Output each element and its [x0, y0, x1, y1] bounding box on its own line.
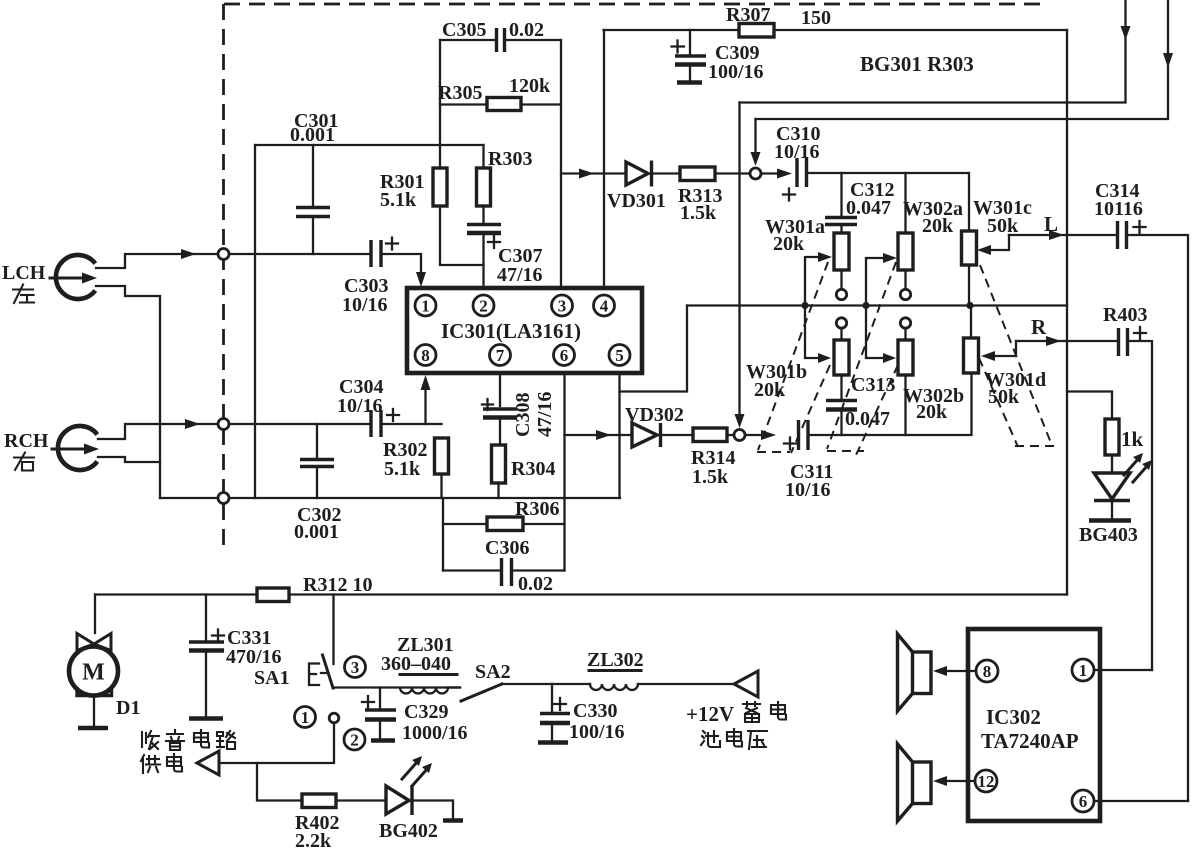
ground bar C330: [538, 740, 568, 745]
label C305 value: [442, 19, 544, 41]
LED BG402: [386, 756, 453, 818]
svg-text:VD302: VD302: [625, 404, 684, 426]
potentiometer W301d: [964, 306, 1017, 374]
label IC301: [441, 319, 581, 343]
wire C301 loop left vertical: [254, 145, 256, 498]
label R302 value: [383, 439, 427, 480]
label RCH: [4, 430, 49, 452]
node open circle on LCH line at dashed border: [218, 249, 229, 260]
pin 1: [415, 295, 436, 316]
dashed border left edge: [222, 4, 225, 547]
wire LCH upper stub to node A: [96, 254, 370, 268]
wire L output line with arrow: [1009, 234, 1117, 236]
svg-text:SA1: SA1: [254, 667, 290, 689]
svg-text:IC302: IC302: [986, 705, 1041, 729]
svg-text:47/16: 47/16: [497, 264, 543, 286]
svg-text:R304: R304: [511, 458, 555, 480]
resistor R312: [257, 588, 289, 602]
label W301c value: [973, 197, 1032, 237]
label C314 value: [1094, 180, 1143, 220]
label C330 value: [569, 700, 625, 743]
wire power rail top: [604, 29, 1068, 31]
svg-text:2: 2: [479, 297, 488, 316]
wire pot center rail: [687, 304, 1067, 306]
capacitor C301: [296, 145, 330, 254]
wire pin5 elbow to pot center rail: [620, 306, 688, 392]
resistor R306: [443, 517, 565, 531]
label BG301 R303: [860, 52, 974, 76]
arrow on LCH line: [181, 249, 196, 259]
wire rail to motor: [94, 595, 96, 634]
svg-text:12: 12: [978, 772, 995, 791]
dashed gang coupling middle pair: [827, 262, 898, 455]
svg-text:R303: R303: [488, 148, 532, 170]
label R402 value: [295, 812, 339, 848]
label ZL302: [587, 649, 644, 671]
speaker lower: [898, 744, 932, 821]
capacitor C304 electrolytic: [371, 409, 399, 437]
ground bar C329: [371, 738, 395, 743]
svg-text:1: 1: [421, 297, 430, 316]
node contact circle SA1: [329, 713, 339, 723]
label C301 value: [290, 110, 338, 146]
potentiometer W301a: [805, 233, 849, 306]
label C329 value: [402, 701, 468, 744]
capacitor C311 electrolytic: [784, 420, 808, 450]
resistor R305: [440, 98, 561, 111]
svg-text:50k: 50k: [987, 215, 1019, 237]
dashed gang coupling right pair: [979, 265, 1058, 447]
svg-text:0.047: 0.047: [846, 197, 891, 219]
LED BG403: [1094, 453, 1152, 518]
svg-text:6: 6: [1079, 792, 1088, 811]
label C311 value: [785, 461, 833, 501]
label C302 value: [294, 504, 341, 543]
pin 8: [415, 345, 436, 366]
svg-text:0.001: 0.001: [290, 124, 335, 146]
capacitor C331 electrolytic: [189, 595, 224, 717]
wire C303 to IC301 pin1 with down arrow: [382, 254, 421, 272]
label C306 value: [485, 537, 553, 595]
label W301a value: [765, 216, 825, 255]
connector RCH input jack: [52, 426, 99, 470]
label C307 value: [497, 245, 543, 286]
resistor R303: [477, 145, 491, 223]
capacitor C313: [826, 375, 857, 435]
pin 7: [490, 345, 511, 366]
svg-text:R305: R305: [438, 82, 482, 104]
resistor R313: [680, 167, 750, 181]
label SA2: [475, 661, 511, 683]
wire pin6 vertical: [563, 373, 565, 571]
junction dot W302a wiper: [862, 302, 869, 309]
diode VD301: [626, 161, 680, 187]
svg-text:5.1k: 5.1k: [384, 458, 421, 480]
pin 4: [594, 295, 615, 316]
switch SA2: [461, 684, 502, 701]
wire pin1 to R403 vertical: [1094, 669, 1152, 671]
pin 6: [554, 345, 575, 366]
capacitor C306: [443, 558, 565, 586]
svg-text:5.1k: 5.1k: [380, 189, 417, 211]
potentiometer W301b: [805, 306, 849, 376]
capacitor C303 electrolytic: [371, 238, 398, 268]
pin 2: [473, 295, 494, 316]
svg-text:1: 1: [1079, 661, 1088, 680]
terminal +12V battery triangle: [734, 671, 758, 697]
label W301d value: [985, 369, 1046, 408]
wire VD301 signal line with arrow: [561, 172, 626, 174]
svg-text:10116: 10116: [1094, 198, 1143, 220]
ground bar motor: [78, 726, 108, 731]
label C312 value: [846, 179, 894, 219]
capacitor R403 electrolytic: [1119, 327, 1147, 356]
wire ground bus rail: [160, 497, 620, 499]
wire C314 to IC302 pin6: [1127, 235, 1188, 801]
wire branch down to R402: [257, 763, 302, 801]
node open circle on RCH line at dashed border: [218, 419, 229, 430]
pin 6 of IC302: [1072, 790, 1094, 812]
svg-text:3: 3: [351, 658, 360, 677]
resistor R302: [435, 438, 449, 498]
capacitor C308 electrolytic: [482, 399, 517, 445]
svg-text:RCH: RCH: [4, 430, 49, 452]
capacitor C309 electrolytic: [672, 30, 707, 83]
svg-text:C308: C308: [512, 393, 534, 437]
wire pin7 to C308: [499, 373, 501, 406]
svg-text:1.5k: 1.5k: [680, 202, 717, 224]
svg-text:10/16: 10/16: [774, 141, 820, 163]
capacitor C329 electrolytic: [362, 688, 396, 739]
pin number 2 circled: [344, 729, 365, 750]
capacitor C305: [440, 28, 561, 52]
label L: [1044, 212, 1058, 236]
svg-text:IC301(LA3161): IC301(LA3161): [441, 319, 581, 343]
node open circle on ground rail at dashed border: [218, 493, 229, 504]
label R306: [515, 498, 559, 520]
label R: [1031, 315, 1047, 339]
ground bar BG402: [443, 818, 463, 823]
wire R output line with arrow: [1016, 340, 1118, 342]
svg-text:1k: 1k: [1121, 427, 1144, 451]
svg-text:8: 8: [421, 346, 430, 365]
svg-text:47/16: 47/16: [534, 391, 556, 437]
capacitor C307 electrolytic: [467, 225, 501, 289]
terminal radio supply triangle: [197, 751, 219, 775]
wire SA2 to ZL302: [502, 683, 590, 685]
label R312 value: [303, 574, 372, 596]
potentiometer W302b: [866, 306, 913, 436]
svg-text:360–040: 360–040: [381, 653, 451, 675]
capacitor C312: [825, 173, 857, 233]
label R305 value: [438, 75, 551, 104]
svg-text:120k: 120k: [509, 75, 551, 97]
svg-text:4: 4: [600, 297, 609, 316]
wire L-channel top rail after C310: [807, 172, 968, 174]
motor M D1: [69, 634, 118, 727]
label IC302 TA7240AP: [981, 705, 1079, 753]
wire R301 bottom to pin2 rail: [440, 206, 484, 265]
capacitor C302: [300, 424, 334, 498]
dashed border top edge: [224, 3, 1042, 6]
wire VD302 signal line with arrow: [565, 434, 633, 436]
resistor R304: [492, 445, 506, 498]
svg-text:6: 6: [560, 346, 569, 365]
label 1k: [1121, 427, 1144, 451]
wire pin6 to C314 vertical: [1094, 800, 1188, 802]
resistor R307: [739, 24, 774, 38]
wire main power rail bottom: [95, 593, 1067, 595]
svg-text:20k: 20k: [916, 401, 948, 423]
label SA1: [254, 667, 290, 689]
wire net B from top into node with arrows: [751, 0, 1174, 166]
svg-text:0.02: 0.02: [518, 573, 553, 595]
svg-text:20k: 20k: [773, 233, 805, 255]
label D1: [116, 697, 140, 719]
svg-text:10/16: 10/16: [785, 479, 831, 501]
inductor ZL301: [400, 688, 460, 694]
svg-text:L: L: [1044, 212, 1058, 236]
switch SA1: [309, 595, 334, 689]
arrow on RCH line: [185, 419, 200, 429]
wire R306 loop left vertical: [442, 498, 444, 571]
svg-text:150: 150: [801, 7, 831, 29]
wire pin12 to speaker with arrow: [946, 780, 975, 782]
label VD302: [625, 404, 684, 426]
svg-text:D1: D1: [116, 697, 140, 719]
pin 1 of IC302: [1072, 659, 1094, 681]
wire net A from top into R-channel node with arrows: [735, 0, 1131, 428]
resistor R314: [693, 428, 734, 442]
svg-text:0.001: 0.001: [294, 521, 339, 543]
ground bar BG403: [1089, 518, 1131, 523]
wire arrow after node into C310: [761, 172, 778, 174]
pin number 3 circled: [345, 657, 366, 678]
wire arrow after node into C311: [745, 434, 762, 436]
pin 8 of IC302: [976, 660, 998, 682]
label LCH: [2, 262, 46, 284]
svg-text:ZL302: ZL302: [587, 649, 644, 671]
svg-text:C306: C306: [485, 537, 529, 559]
label R314 value: [691, 447, 735, 488]
inductor ZL302: [590, 684, 638, 690]
svg-text:100/16: 100/16: [708, 61, 764, 83]
junction dot W301c column: [966, 302, 973, 309]
svg-text:C329: C329: [404, 701, 448, 723]
wire pin8 to speaker with arrow: [946, 670, 976, 672]
svg-text:C305: C305: [442, 19, 486, 41]
label C309 value: [708, 42, 764, 83]
svg-text:LCH: LCH: [2, 262, 46, 284]
node open circle after R313: [750, 168, 761, 179]
label W302b value: [903, 385, 964, 423]
pin 12 of IC302: [975, 770, 997, 792]
resistor 1k: [1105, 419, 1119, 455]
svg-text:TA7240AP: TA7240AP: [981, 729, 1079, 753]
svg-text:M: M: [82, 660, 105, 686]
wire C304 to R302 top: [382, 423, 442, 425]
wire ZL302 to +12V terminal: [638, 683, 734, 685]
IC amplifier IC302 TA7240AP box: [968, 629, 1100, 821]
wire up arrow into IC301 pin8: [424, 390, 426, 424]
svg-text:BG403: BG403: [1079, 524, 1138, 546]
label 左: [13, 285, 34, 304]
node open circle after R314: [734, 430, 745, 441]
svg-text:10/16: 10/16: [337, 395, 383, 417]
svg-text:VD301: VD301: [607, 190, 666, 212]
svg-text:8: 8: [983, 662, 992, 681]
wire R-channel bottom rail: [808, 373, 972, 435]
pin 3: [552, 295, 573, 316]
IC op-amp IC301 LA3161 box: [407, 288, 642, 373]
svg-text:7: 7: [496, 346, 505, 365]
wire LCH lower stub to ground bus: [96, 286, 160, 498]
dashed gang coupling left pair: [757, 262, 830, 453]
label ZL301 value: [381, 634, 457, 675]
svg-text:5: 5: [615, 346, 624, 365]
svg-text:470/16: 470/16: [226, 646, 282, 668]
label C331 value: [226, 627, 282, 668]
svg-text:3: 3: [558, 297, 567, 316]
wire SA1 blade to ZL301: [333, 686, 460, 688]
svg-text:BG301 R303: BG301 R303: [860, 52, 974, 76]
wire pin5 vertical to ground rail: [618, 373, 620, 498]
label W302a value: [903, 198, 963, 237]
svg-text:R: R: [1031, 315, 1047, 339]
pin 5: [609, 345, 630, 366]
label BG403: [1079, 524, 1138, 546]
label R304: [511, 458, 555, 480]
label C308 value rotated: [512, 391, 556, 437]
wire pin4 vertical to power rail: [603, 30, 605, 288]
capacitor C330 electrolytic: [540, 684, 570, 740]
svg-text:10/16: 10/16: [342, 294, 388, 316]
wire C305 loop left vertical: [439, 40, 441, 168]
capacitor C310 electrolytic: [783, 158, 807, 201]
label R313 value: [678, 185, 722, 224]
label C310 value: [774, 123, 820, 163]
svg-text:20k: 20k: [922, 215, 954, 237]
label C303 value: [342, 275, 388, 316]
label BG402: [379, 820, 438, 842]
wire C305 loop right vertical to pin3: [560, 40, 562, 288]
svg-text:R312 10: R312 10: [303, 574, 372, 596]
resistor R301: [433, 168, 447, 206]
potentiometer W302a: [866, 173, 913, 306]
svg-text:1.5k: 1.5k: [692, 466, 729, 488]
label VD301: [607, 190, 666, 212]
svg-text:R307: R307: [726, 4, 770, 26]
speaker upper: [898, 634, 932, 711]
svg-text:2.2k: 2.2k: [295, 830, 332, 848]
diode VD302: [632, 423, 693, 447]
svg-text:SA2: SA2: [475, 661, 511, 683]
wire power vertical right side: [1066, 30, 1068, 595]
label W301b value: [746, 361, 807, 401]
wire feed to 1k resistor: [1067, 392, 1112, 420]
svg-text:100/16: 100/16: [569, 721, 625, 743]
wire RCH lower stub to ground bus: [98, 457, 160, 462]
svg-text:0.047: 0.047: [845, 408, 890, 430]
label R301 value: [380, 171, 424, 211]
resistor R402: [302, 794, 384, 808]
potentiometer W301c: [962, 173, 1010, 306]
svg-text:2: 2: [350, 731, 359, 750]
connector LCH input jack: [50, 255, 97, 299]
label C304 value: [337, 376, 383, 417]
junction dot W301a wiper: [801, 302, 808, 309]
wire SA1 contact1 to radio supply terminal: [219, 723, 334, 763]
wire RCH upper stub to node B: [98, 424, 370, 439]
wire R403 to IC302 pin1: [1128, 341, 1152, 670]
label R403: [1103, 304, 1147, 326]
wire C301 top rail: [255, 144, 484, 146]
svg-text:BG402: BG402: [379, 820, 438, 842]
label radio circuit power supply: [141, 730, 235, 773]
label R307 value: [726, 4, 831, 29]
svg-text:C330: C330: [573, 700, 617, 722]
svg-text:+12V: +12V: [686, 702, 734, 726]
label R303: [488, 148, 532, 170]
svg-text:0.02: 0.02: [509, 19, 544, 41]
svg-text:R403: R403: [1103, 304, 1147, 326]
pin number 1 circled: [295, 707, 316, 728]
label C313 value: [845, 374, 895, 430]
ground bar C331: [189, 716, 223, 721]
svg-text:1000/16: 1000/16: [402, 722, 468, 744]
label 右: [14, 453, 34, 471]
svg-text:1: 1: [301, 708, 310, 727]
capacitor C314 electrolytic: [1118, 221, 1146, 249]
label +12V battery voltage: [686, 702, 786, 749]
svg-text:R306: R306: [515, 498, 559, 520]
